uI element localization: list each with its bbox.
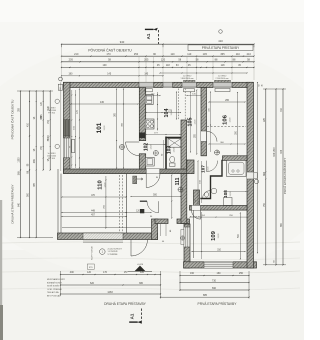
schody annotation circle [100,249,106,255]
outer left wall [64,82,71,173]
svg-text:DRUHÁ ETAPA PRÍSTAVBY: DRUHÁ ETAPA PRÍSTAVBY [11,184,15,223]
svg-text:KTD: KTD [89,267,93,269]
top wall window 2 [163,82,173,87]
svg-text:PRVÁ ETAPA PRÍSTAVBY: PRVÁ ETAPA PRÍSTAVBY [283,158,287,195]
elevation triangle [135,266,146,272]
partitions room 108 [200,160,222,199]
svg-text:12,00: 12,00 [182,178,184,184]
bottom-middle wall [155,219,168,224]
svg-text:12,00: 12,00 [208,166,210,172]
lower-left block bottom wall [58,233,158,240]
svg-text:110: 110 [171,53,176,56]
svg-text:110: 110 [187,53,192,56]
svg-text:A1: A1 [130,313,135,319]
svg-text:620: 620 [90,282,95,285]
svg-text:1803: 1803 [274,147,276,153]
svg-text:1 STUPEŇ: 1 STUPEŇ [108,250,118,253]
svg-text:12,00: 12,00 [174,147,176,153]
wall above 109 [190,206,248,211]
radiator under left window [71,140,75,153]
svg-text:P.V. 900: P.V. 900 [48,158,55,160]
svg-text:118: 118 [166,64,170,67]
vent circle on wall [180,236,184,240]
lintel mark w3 [184,80,196,82]
svg-text:120: 120 [161,59,166,62]
extra dim room 106 [209,143,245,145]
outer top wall [64,82,254,87]
left wall window dark [64,120,71,136]
door in wall 105|106 into 106 [201,131,207,142]
svg-text:BET. PODKLAD: BET. PODKLAD [47,295,61,298]
left window annotation 2 [55,144,59,148]
svg-text:102: 102 [144,143,150,152]
svg-text:60: 60 [259,84,261,86]
svg-text:100: 100 [103,64,108,67]
wall stub west of 108 [194,190,200,206]
top dim line 5 short right [160,72,247,74]
svg-text:101: 101 [96,122,103,133]
chimney block 111 [140,209,144,213]
left window annotation 1 [55,99,59,103]
svg-text:120: 120 [140,271,145,274]
top wall window kitchen [139,82,154,87]
svg-text:250: 250 [239,272,244,275]
washer 102 [146,157,155,166]
wall below 106 [223,156,248,161]
extra dim 107 [201,161,203,203]
bottom-middle wall right part [177,219,190,224]
bottom dim line 1 right [180,275,249,277]
stairs dashes 110|111 [119,175,121,233]
right wall window break [247,172,254,179]
radiators top wall [145,89,152,92]
extra dim 109 [201,212,203,259]
interior dim 102/103 [146,144,165,146]
extra dims near steps [160,224,162,236]
svg-text:PÔVODNÁ ČASŤ OBJEKTU: PÔVODNÁ ČASŤ OBJEKTU [10,100,15,140]
svg-text:108: 108 [223,190,228,198]
svg-text:120: 120 [87,271,92,274]
svg-text:12,00: 12,00 [218,233,220,239]
left mid ticks [35,101,38,170]
bottom wall window of 109 [204,262,233,268]
shower box 103 with X [168,139,181,148]
fixtures 108: tub sink wc [227,160,247,176]
svg-text:400: 400 [70,271,75,274]
svg-text:2x14x SCHODY: 2x14x SCHODY [108,249,123,251]
bottom wall french window [83,233,123,240]
toilet 103 [170,163,176,166]
svg-text:210: 210 [247,53,252,56]
partition 103 north [166,137,181,139]
kitchen sink unit 104 [145,95,153,105]
bottom dim line 2 [61,284,161,286]
circled cross symbols [120,145,125,150]
wall 104|105 [181,120,187,169]
top dim line 4 [62,66,255,68]
bottom dim line 3 [61,293,161,295]
top dim line 5 left [62,75,164,77]
svg-text:MUROVANÉ KONŠT.: MUROVANÉ KONŠT. [47,278,66,281]
room109 block left wall [184,224,190,268]
svg-text:TEHLA PLNÁ: TEHLA PLNÁ [47,291,59,294]
interior bearing wall D (bottom of original house) [64,169,187,174]
left dim lines [20,91,22,238]
svg-text:-0,020: -0,020 [137,264,144,266]
top wall window 3 [182,82,197,87]
interior dim 101 [71,103,138,105]
opening dashes above wall 104|105 [177,89,179,120]
door 107->109 [192,206,201,211]
exterior door arc at new entrance [131,240,148,257]
svg-text:205: 205 [69,59,74,62]
svg-text:12,00: 12,00 [230,117,232,123]
svg-text:885: 885 [203,294,208,297]
top dim line 1 full width [62,43,255,45]
door wall A arc into 101 [126,142,140,156]
scan streaks [2,242,300,244]
right dim lines [257,83,259,253]
dashed line room 106 [207,126,246,128]
svg-text:V TERÉNE: V TERÉNE [108,253,119,256]
svg-text:BÚRANÉ KONŠT.: BÚRANÉ KONŠT. [47,281,63,284]
svg-text:210: 210 [74,53,79,56]
svg-text:730: 730 [212,279,217,282]
svg-text:250: 250 [134,53,139,56]
interior dim 110/111 upper [62,212,151,214]
room109 block bottom wall [184,262,257,268]
svg-text:107: 107 [201,165,206,173]
svg-text:445: 445 [280,149,283,154]
svg-text:106: 106 [223,114,229,125]
interior dim 109 [192,251,245,253]
svg-text:160: 160 [190,272,195,275]
svg-text:P.V. 900: P.V. 900 [48,113,55,115]
extra tiny dims top rooms [146,95,160,97]
svg-text:103: 103 [167,146,173,155]
svg-text:205: 205 [144,59,149,62]
section mark A1 bottom [129,321,138,323]
step wall corner [152,219,158,240]
outer right wall [247,82,254,268]
svg-text:PRVÁ ETAPA PRÍSTAVBY: PRVÁ ETAPA PRÍSTAVBY [198,302,238,306]
svg-text:940: 940 [120,40,125,44]
thin line 109 west finish [193,210,195,258]
svg-text:PÔVODNÁ ČASŤ OBJEKTU: PÔVODNÁ ČASŤ OBJEKTU [88,47,132,52]
axis circle right [254,179,258,183]
svg-text:OCEĽ. PREKLAD: OCEĽ. PREKLAD [47,288,63,291]
stove unit 104 [145,119,154,129]
svg-text:110: 110 [236,53,241,56]
terrace edge line [62,227,151,229]
wall junction 105/107 offset [187,160,194,174]
svg-text:1283: 1283 [19,157,21,163]
svg-text:NOVÉ KONŠT.: NOVÉ KONŠT. [47,285,60,288]
bottom dim line 1 left [61,274,161,276]
top wall window 4 [213,82,232,87]
boxed text PRVA ETAPA PRISTAVBY [188,45,253,51]
svg-text:118: 118 [221,64,225,67]
svg-text:109: 109 [211,230,217,241]
partition 102|103 [165,137,167,170]
svg-text:160: 160 [217,272,222,275]
svg-text:690: 690 [212,287,217,290]
lower-left block left wall [57,169,59,240]
svg-text:NOVÝ VCHOD: NOVÝ VCHOD [90,246,93,260]
left wall window light [64,138,71,158]
axis circle top-left [59,77,63,81]
svg-text:365: 365 [33,159,36,164]
guide verticals top [61,57,63,82]
section mark A1 top [145,28,154,30]
svg-text:430: 430 [100,101,105,104]
svg-text:A1: A1 [146,33,151,39]
svg-text:12,00: 12,00 [105,182,107,188]
interior dim 107/108 [197,161,199,204]
svg-text:12,00: 12,00 [195,119,197,125]
interior dim 110 [62,196,126,198]
interior dim 111 [131,196,181,198]
interior dim 104/105/106 [157,92,159,131]
door corridor into 108 below [207,161,218,172]
chimney block [140,133,146,139]
legend mark in 111 [133,176,137,184]
svg-text:110: 110 [98,180,104,190]
svg-text:380: 380 [139,282,144,285]
left footing line [60,82,62,171]
svg-text:365: 365 [220,53,225,56]
thin partition line 111 left [126,174,128,233]
svg-text:PRVÁ ETAPA PRÍSTAVBY: PRVÁ ETAPA PRÍSTAVBY [202,46,240,50]
wall 111|107 [181,174,187,224]
svg-text:860: 860 [263,171,266,176]
svg-text:12,00: 12,00 [104,125,106,131]
svg-text:365: 365 [18,171,21,176]
svg-text:157: 157 [124,271,129,274]
svg-text:170: 170 [106,53,111,56]
svg-text:2 100/1500 mm: 2 100/1500 mm [215,78,229,80]
door arc 108 [203,191,211,199]
interior wall A (101 | 102-104) [139,88,145,141]
svg-text:111: 111 [175,177,181,185]
svg-text:DRUHÁ ETAPA PRÍSTAVBY: DRUHÁ ETAPA PRÍSTAVBY [104,302,147,306]
partition 111 south with door [140,200,147,202]
top dim line 2 [62,55,255,57]
top dim line 3 [62,61,255,63]
svg-text:170: 170 [103,271,108,274]
svg-text:45: 45 [262,84,264,86]
svg-text:1 800/1500 mm: 1 800/1500 mm [180,78,194,80]
door in wall D (102 to 111) [146,169,160,174]
dashed line room 109 top [190,216,200,218]
window in 109 west wall [184,227,190,247]
lintel mark w4 [215,80,231,82]
svg-text:1283: 1283 [107,291,113,294]
wall 105|106 [201,88,207,156]
svg-text:410: 410 [218,39,223,43]
bottom dim line 4 right [161,296,250,298]
svg-text:145: 145 [203,53,208,56]
